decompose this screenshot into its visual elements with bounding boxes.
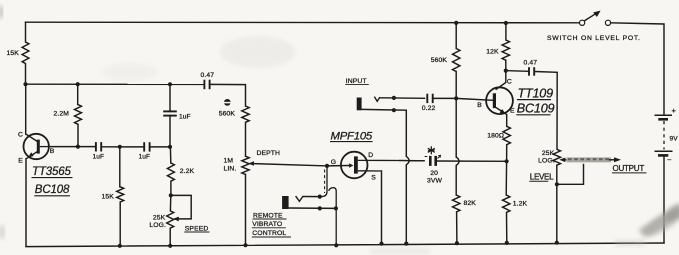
svg-text:TT109: TT109 — [518, 86, 554, 100]
svg-text:9V: 9V — [670, 136, 679, 143]
jack J2 tip spring contact — [374, 97, 380, 102]
wire node A down to TT3565 collector — [25, 84, 27, 134]
svg-text:0.47: 0.47 — [201, 72, 215, 79]
asterisk mark above C7 — [428, 146, 435, 154]
wire TT3565 emitter to bottom rail — [25, 159, 27, 247]
fet Tr2 MPF105 — [341, 152, 400, 179]
wire rail to 560K R6 — [455, 23, 457, 49]
wire node K to Q2 collector — [496, 71, 506, 90]
label Q2 pin E — [510, 108, 515, 115]
label REMOTE — [253, 213, 287, 220]
node G junction dot — [169, 193, 173, 197]
label Tr2 type MPF105 — [330, 131, 373, 143]
wire gate node to fet gate — [327, 165, 349, 167]
label Q1 type TT3565 — [32, 166, 73, 178]
wire speed pot loop (node G right-down to wiper) — [171, 195, 191, 219]
electrolytic polarity symbol near 560K — [224, 99, 231, 106]
wire node C down to C4 — [169, 84, 171, 111]
junction dot input ground — [404, 242, 408, 246]
wire 560K R6 to node I — [455, 72, 457, 99]
wire jack tip to contact dot — [303, 196, 320, 198]
svg-text:1uF: 1uF — [179, 114, 191, 121]
wire 560K to depth pot — [245, 122, 247, 156]
svg-text:E: E — [18, 158, 23, 165]
resistor R8 12K — [486, 40, 509, 60]
label VIBRATO — [252, 221, 286, 228]
wire 12K to node K — [505, 60, 507, 70]
resistor R7 82K — [453, 195, 477, 212]
junction dot source ground — [379, 242, 383, 246]
electrolytic C7 20uF 3VW — [430, 156, 435, 166]
switch S1 on/off (on level pot) — [580, 11, 611, 26]
label Q2 type TT109 — [517, 86, 553, 100]
svg-text:1M: 1M — [224, 157, 234, 164]
wire node G to speed pot top — [169, 195, 171, 210]
jack J1 body (remote vibrato control) — [282, 196, 289, 209]
scan smudge left middle — [102, 63, 158, 81]
label OUTPUT — [612, 164, 647, 173]
svg-text:C: C — [507, 79, 512, 86]
input sleeve contact dot — [392, 108, 396, 112]
capacitor C3 1uF — [93, 142, 105, 160]
svg-text:1.2K: 1.2K — [513, 200, 528, 207]
wire rail to 12K — [505, 23, 507, 40]
svg-text:TT3565: TT3565 — [32, 166, 71, 178]
svg-text:12K: 12K — [486, 48, 499, 55]
wire level wiper stub — [564, 159, 568, 161]
svg-text:LOG.: LOG. — [149, 222, 166, 229]
resistor R1 15K — [7, 42, 29, 64]
wire node J to 1.2K — [505, 161, 507, 195]
label battery - terminal — [668, 157, 672, 164]
junction dot 12K top — [504, 21, 508, 25]
junction dot 1.2K ground — [505, 241, 509, 245]
wire 82K to bottom rail — [456, 212, 458, 243]
wire node K to C8 — [506, 70, 528, 73]
svg-text:20: 20 — [430, 170, 438, 177]
node L junction dot (level pot bottom) — [555, 182, 559, 186]
scan smudge top middle — [220, 36, 296, 68]
wire speed pot to bottom rail — [169, 228, 171, 246]
wire top supply rail (left section to switch) — [26, 21, 580, 24]
potentiometer VR3 25K LOG (level) — [538, 149, 560, 165]
transistor Q2 TT109/BC109 (npn) — [486, 87, 513, 114]
svg-text:1uF: 1uF — [139, 154, 151, 161]
wire 15K to node A — [25, 64, 27, 85]
node C junction dot (1uF C4 top) — [168, 82, 172, 86]
wire Q2 emitter to 180R — [506, 115, 508, 127]
label SPEED — [184, 225, 209, 232]
svg-text:2.2K: 2.2K — [180, 168, 195, 175]
svg-text:+: + — [672, 106, 677, 115]
svg-text:S: S — [371, 175, 376, 182]
junction dot jack ground — [334, 243, 338, 247]
svg-text:15K: 15K — [102, 193, 115, 200]
label C7 minus — [425, 156, 428, 158]
capacitor C8 0.47 — [524, 60, 538, 76]
svg-text:3VW: 3VW — [427, 178, 443, 185]
jack NC switch contact hook — [329, 188, 337, 246]
wire depth wiper to gate node — [253, 164, 328, 166]
label C7 value 3VW — [427, 178, 443, 185]
junction dot 15K R4 ground — [118, 244, 122, 248]
junction dot speed pot ground — [168, 244, 172, 248]
wiper arrow of speed pot — [173, 217, 179, 222]
svg-text:2.2M: 2.2M — [54, 110, 70, 117]
wire hop to 82K — [455, 166, 457, 196]
label Tr2 pin D — [368, 152, 373, 159]
wire C6 to node I — [433, 97, 457, 99]
wire bottom ground rail — [26, 243, 664, 247]
svg-text:LOG.: LOG. — [538, 157, 555, 164]
input tip contact dot — [392, 96, 396, 100]
wire gate node down to jack tip contact — [322, 166, 328, 197]
wire depth pot to bottom rail — [245, 174, 247, 245]
resistor R2 2.2M — [54, 105, 82, 125]
label Q1 pin B — [50, 148, 55, 155]
label CONTROL — [252, 230, 291, 237]
junction dot 82K ground — [455, 241, 459, 245]
svg-text:560K: 560K — [219, 110, 236, 117]
resistor R10 1.2K — [503, 195, 528, 213]
wire C2 to 560K R3 — [210, 84, 246, 106]
dashed mechanical link of jack J1 — [324, 170, 326, 194]
label Q1 pin E — [18, 158, 23, 165]
svg-text:C: C — [18, 131, 23, 138]
wire node A horizontal run to C2 — [26, 83, 205, 85]
wire node I to Q2 base — [456, 98, 492, 100]
svg-text:25K: 25K — [542, 150, 555, 157]
jack J2 body (input) — [357, 98, 362, 111]
wire node F to 2.2K — [169, 147, 171, 163]
svg-text:DEPTH: DEPTH — [257, 150, 281, 157]
svg-text:15K: 15K — [7, 50, 20, 57]
junction dot sleeve-to-ground wire — [334, 206, 338, 210]
label Q2 pin C — [507, 79, 512, 86]
svg-text:B: B — [50, 148, 55, 155]
jack sleeve contact dot — [318, 206, 322, 210]
node H junction dot (gate) — [325, 164, 329, 168]
wire C3 to C5 — [101, 146, 144, 148]
node F junction dot — [168, 145, 172, 149]
svg-text:82K: 82K — [464, 200, 477, 207]
wire level wiper tie-down loop — [557, 165, 584, 185]
svg-text:0.22: 0.22 — [422, 105, 436, 112]
junction dot depth pot ground — [243, 243, 247, 247]
junction dot level pot ground — [555, 241, 559, 245]
svg-text:E: E — [510, 108, 515, 115]
svg-text:REMOTE: REMOTE — [253, 213, 283, 220]
jack J1 tip spring contact — [296, 196, 303, 201]
svg-text:LEVEL: LEVEL — [530, 173, 554, 182]
label Tr2 pin S — [371, 175, 376, 182]
label battery 9V — [670, 136, 679, 143]
junction dot 560K R6 top — [454, 21, 458, 25]
resistor R5 2.2K — [167, 163, 194, 181]
wire top rail (switch to battery corner) — [611, 23, 664, 115]
label Q1 type BC108 — [34, 184, 70, 196]
wire input sleeve line — [362, 109, 407, 156]
capacitor C6 0.22 — [422, 94, 436, 112]
label SWITCH ON LEVEL POT. — [547, 35, 641, 42]
battery B1 9V — [655, 115, 673, 155]
label Tr2 pin G — [331, 159, 336, 166]
svg-text:VIBRATO: VIBRATO — [252, 221, 282, 228]
label C7 value 20 — [430, 170, 438, 177]
node I junction dot — [454, 96, 458, 100]
retouched wiper line (grey hatched) — [567, 157, 612, 163]
node J junction dot — [505, 159, 509, 163]
wire 2.2K to node G — [170, 181, 172, 195]
svg-text:BC108: BC108 — [35, 184, 70, 196]
node D junction dot (2.2M bottom) — [76, 145, 80, 149]
scan mark left edge top — [0, 6, 3, 18]
scan mark left edge bottom — [0, 226, 4, 238]
output arrow — [610, 157, 622, 162]
wire level pot bottom to ground — [556, 165, 558, 243]
transistor Q1 TT3565/BC108 (npn) — [24, 134, 50, 159]
label Q2 pin B — [477, 102, 482, 109]
wire battery negative to bottom rail — [663, 157, 665, 243]
wire 15K R4 to bottom rail — [119, 202, 121, 246]
svg-text:SPEED: SPEED — [185, 225, 209, 232]
node K junction dot — [504, 69, 508, 73]
wire input tip to C6 — [380, 97, 425, 100]
wire fet source to bottom rail — [381, 171, 383, 244]
label INPUT — [345, 78, 369, 85]
svg-text:D: D — [368, 152, 373, 159]
wire Q1 base run — [49, 146, 96, 148]
wire C8 to level pot — [535, 72, 557, 150]
node B junction dot (2.2M top) — [76, 82, 80, 86]
node E junction dot (15K R4 top) — [118, 145, 122, 149]
wire C7 to node J — [436, 160, 506, 162]
svg-text:560K: 560K — [431, 57, 448, 64]
node A junction dot — [23, 82, 27, 86]
label C7 plus — [438, 155, 442, 159]
wire hop to C7 (joins drain run) — [410, 160, 424, 162]
scan streak bottom right — [637, 199, 679, 242]
wire node I down to hop — [455, 98, 457, 157]
label LEVEL — [529, 173, 554, 182]
resistor R6 560K — [431, 49, 460, 72]
svg-text:SWITCH ON LEVEL POT.: SWITCH ON LEVEL POT. — [547, 35, 641, 42]
svg-text:0.47: 0.47 — [524, 60, 538, 67]
gate arrowhead of Tr2 — [349, 163, 353, 168]
resistor R4 15K — [102, 187, 124, 202]
svg-text:OUTPUT: OUTPUT — [613, 164, 645, 173]
wire jack sleeve line — [289, 207, 336, 209]
wiper arrow of level pot — [559, 158, 565, 163]
wire left rail top (rail to 15K) — [25, 22, 27, 42]
svg-text:1uF: 1uF — [93, 154, 105, 161]
wiper arrow of depth pot — [248, 161, 254, 166]
wire node B to 2.2M — [77, 84, 79, 104]
capacitor C2 0.47 — [201, 72, 215, 89]
wire 2.2M to base node — [77, 124, 79, 146]
svg-text:–: – — [668, 157, 672, 164]
resistor R3 560K — [219, 106, 249, 122]
svg-text:G: G — [331, 159, 336, 166]
wire 180R to node J — [506, 145, 508, 162]
wire C5 to node F — [150, 146, 170, 148]
hop 82K wire over drain wire — [456, 157, 459, 165]
label battery + terminal — [672, 106, 677, 115]
hop input-ground wire over drain wire — [406, 156, 409, 164]
capacitor C5 1uF — [139, 142, 151, 160]
svg-text:BC109: BC109 — [517, 101, 555, 115]
wire fet drain to hop — [400, 160, 424, 162]
capacitor C4 1uF — [163, 111, 190, 120]
wire 1.2K to bottom rail — [506, 213, 508, 243]
wire input ground below hop to bottom rail — [405, 165, 407, 244]
potentiometer VR2 1M LIN (depth) — [224, 156, 250, 174]
svg-text:LIN.: LIN. — [224, 165, 237, 172]
resistor R9 180ohm — [487, 126, 510, 144]
label Q2 type BC109 — [516, 101, 554, 115]
svg-text:CONTROL: CONTROL — [252, 230, 286, 237]
jack tip contact dot — [318, 195, 322, 199]
svg-text:B: B — [477, 102, 482, 109]
svg-text:MPF105: MPF105 — [331, 131, 373, 143]
wire node E down to 15K R4 — [119, 147, 121, 187]
svg-text:INPUT: INPUT — [346, 78, 367, 85]
scan mark bottom edge — [370, 241, 645, 253]
potentiometer VR1 25K LOG (speed) — [149, 211, 173, 229]
svg-text:180Ω: 180Ω — [487, 133, 504, 140]
svg-text:25K: 25K — [153, 214, 166, 221]
label DEPTH — [257, 150, 281, 157]
label Q1 pin C — [18, 131, 23, 138]
wire C4 to node F — [169, 116, 171, 147]
